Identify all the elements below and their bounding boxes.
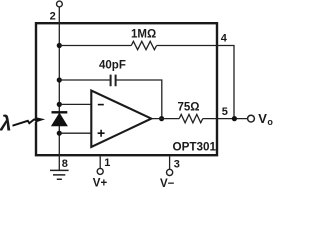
light ray arrow: [13, 120, 35, 126]
pin 1 terminal circle: [97, 168, 103, 174]
svg-text:40pF: 40pF: [99, 60, 126, 72]
node: op-amp output / 40pF tie: [159, 116, 164, 121]
svg-text:4: 4: [221, 33, 228, 45]
svg-text:5: 5: [222, 106, 228, 118]
svg-text:1: 1: [104, 157, 110, 169]
node: inverting input / photodiode cathode: [57, 102, 62, 107]
node: pin 5 output junction: [232, 116, 237, 121]
pin 2 terminal circle: [57, 1, 63, 7]
photodiode D1 cathode bar: [52, 111, 68, 113]
op-amp minus sign: [98, 104, 104, 106]
svg-text:o: o: [267, 117, 273, 127]
output terminal circle: [248, 115, 255, 122]
svg-text:V: V: [258, 111, 267, 126]
svg-text:V−: V−: [160, 178, 175, 190]
node: 40pF junction: [57, 77, 62, 82]
pin 3 terminal circle: [167, 169, 173, 175]
capacitor C1 40pF plates: [111, 75, 116, 87]
resistor R1 1M zigzag: [131, 41, 156, 49]
wire: pin 3 stub: [169, 156, 171, 169]
svg-text:75Ω: 75Ω: [178, 102, 200, 114]
svg-text:OPT301: OPT301: [173, 141, 217, 154]
svg-text:V+: V+: [93, 177, 108, 189]
wire: inverting input: [59, 103, 91, 105]
resistor R2 75 ohm zigzag: [179, 114, 203, 122]
svg-text:8: 8: [62, 158, 68, 170]
svg-text:2: 2: [50, 11, 56, 23]
node: non-inverting input / photodiode anode: [57, 131, 62, 136]
photodiode D1 body (filled triangle): [52, 114, 67, 126]
light arrow head: [36, 117, 46, 122]
wire: non-inverting input: [59, 132, 91, 134]
op-amp A1 triangle: [91, 91, 151, 148]
wire: pin 1 stub: [99, 156, 101, 168]
wire: 40pF feedback horizontal: [59, 80, 162, 118]
svg-text:3: 3: [174, 159, 180, 171]
wire: main vertical bus from pin 2 through photodiode to pin 8: [58, 7, 60, 171]
svg-text:1MΩ: 1MΩ: [131, 28, 156, 40]
IC boundary box U1 (OPT301 package outline): [36, 23, 217, 155]
svg-text:λ: λ: [0, 113, 12, 136]
wire: 1M feedback horizontal + pin 4 drop: [59, 46, 234, 119]
node: 1M feedback junction: [57, 43, 62, 48]
wire: output run: [151, 118, 247, 120]
ground symbol: [50, 170, 69, 179]
op-amp plus sign: [98, 130, 105, 137]
